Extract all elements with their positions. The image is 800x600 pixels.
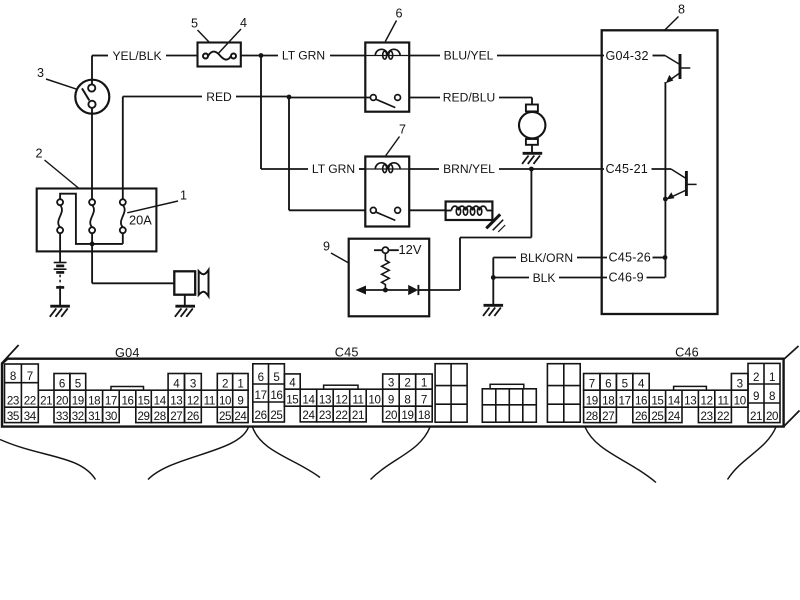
- svg-text:4: 4: [173, 377, 180, 390]
- C45 end block pins 6 5 17 16 26 25: [253, 364, 285, 422]
- svg-text:25: 25: [219, 410, 231, 423]
- svg-text:BRN/YEL: BRN/YEL: [443, 162, 495, 176]
- node D junction on BRN/YEL: [529, 167, 534, 172]
- svg-text:17: 17: [619, 394, 631, 407]
- node G junction on ground wire: [491, 275, 496, 280]
- svg-text:RED: RED: [206, 90, 232, 104]
- fuse B in box 2: [89, 199, 95, 205]
- svg-text:LT GRN: LT GRN: [282, 49, 325, 63]
- svg-text:22: 22: [717, 410, 729, 423]
- svg-text:7: 7: [399, 123, 406, 137]
- svg-text:5: 5: [75, 377, 81, 390]
- svg-text:3: 3: [190, 377, 196, 390]
- unlabeled connector block 2: [547, 364, 580, 423]
- switch 3 (ignition switch): [75, 80, 109, 114]
- svg-text:19: 19: [401, 409, 413, 422]
- svg-text:5: 5: [622, 377, 628, 390]
- C46 middle row pins 19-10: [584, 390, 748, 407]
- wire Q1 emitter to Q2: [664, 82, 666, 199]
- C46 top row pins 7 6 5 4: [584, 374, 600, 391]
- G04 end block pins 8 7 23 22 35 34: [5, 364, 39, 423]
- svg-text:15: 15: [286, 393, 298, 406]
- svg-text:20: 20: [385, 409, 397, 422]
- svg-text:10: 10: [734, 394, 746, 407]
- transistor Q2 base lead: [652, 168, 672, 170]
- svg-text:C45-21: C45-21: [606, 162, 649, 176]
- svg-text:17: 17: [105, 394, 117, 407]
- leader line for label 5: [198, 30, 210, 43]
- relay 6 coil: [365, 55, 409, 57]
- svg-text:21: 21: [352, 409, 364, 422]
- node B junction: [287, 95, 292, 100]
- G04 bottom row pins 33-24: [54, 407, 70, 422]
- harness curve 3: [253, 427, 321, 478]
- svg-text:16: 16: [121, 394, 133, 407]
- solenoid coil: [446, 210, 452, 212]
- wire horn to ground: [184, 295, 186, 306]
- svg-text:9: 9: [753, 390, 759, 403]
- ground at BLK wire: [484, 304, 504, 307]
- svg-text:BLK: BLK: [533, 271, 556, 285]
- svg-text:6: 6: [395, 7, 402, 21]
- svg-text:18: 18: [88, 394, 100, 407]
- svg-text:12: 12: [701, 394, 713, 407]
- wire BLU/YEL relay 6 to ECU: [409, 55, 440, 57]
- svg-text:12: 12: [335, 393, 347, 406]
- svg-text:13: 13: [319, 393, 331, 406]
- svg-text:7: 7: [27, 370, 33, 383]
- harness curve 1: [0, 440, 96, 480]
- wire fuse 5 to node A: [241, 55, 261, 57]
- wire RED/BLU relay 6 to motor: [409, 97, 440, 99]
- svg-text:2: 2: [222, 377, 228, 390]
- svg-text:16: 16: [270, 389, 282, 402]
- wire BRN/YEL relay 7 to ECU: [409, 168, 439, 170]
- svg-text:C45: C45: [335, 346, 359, 360]
- svg-text:24: 24: [302, 409, 315, 422]
- wire motor to ground: [531, 145, 533, 152]
- leader line for label 7: [386, 137, 400, 156]
- svg-text:3: 3: [737, 377, 743, 390]
- C45 top row pins 3 2 1: [383, 374, 400, 389]
- svg-text:18: 18: [418, 409, 430, 422]
- C45 middle row pins 15-7: [284, 389, 432, 406]
- strip top-right corner edge: [784, 346, 799, 360]
- C45 pin 4 cell: [284, 374, 300, 389]
- control unit 9 box: [349, 239, 430, 317]
- relay 6 box: [365, 43, 409, 112]
- svg-text:13: 13: [684, 394, 696, 407]
- solenoid box: [446, 202, 493, 221]
- svg-text:14: 14: [302, 393, 315, 406]
- svg-text:32: 32: [72, 410, 84, 423]
- wire relay 7 switch to solenoid: [409, 209, 445, 211]
- svg-text:11: 11: [204, 394, 215, 407]
- wire fuse A bottom to battery: [59, 233, 61, 262]
- unlabeled connector block 1: [435, 364, 467, 423]
- fuse A in box 2: [57, 199, 63, 205]
- wire RED to relay 6 switch: [289, 97, 370, 99]
- leader line for label 2: [45, 160, 80, 189]
- svg-text:4: 4: [289, 376, 296, 389]
- svg-text:9: 9: [388, 393, 394, 406]
- node E junction in box 9: [383, 288, 388, 293]
- horn bell: [199, 270, 209, 296]
- svg-text:24: 24: [234, 410, 247, 423]
- svg-text:5: 5: [273, 371, 279, 384]
- wire lower LT GRN to relay 7 coil: [359, 168, 365, 170]
- svg-text:BLU/YEL: BLU/YEL: [444, 49, 494, 63]
- svg-text:34: 34: [24, 410, 37, 423]
- svg-text:8: 8: [10, 370, 16, 383]
- wire node B down to relay 7 switch: [288, 97, 290, 210]
- svg-text:LT GRN: LT GRN: [312, 162, 355, 176]
- svg-text:20A: 20A: [129, 213, 152, 228]
- svg-text:2: 2: [753, 371, 759, 384]
- svg-text:21: 21: [40, 394, 52, 407]
- svg-text:C45-26: C45-26: [609, 251, 652, 265]
- wire RED from fuse box 2: [123, 96, 202, 98]
- C46 connector key tab: [674, 386, 707, 390]
- relay 7 box: [365, 157, 409, 227]
- relay 6 switch: [370, 95, 376, 101]
- svg-text:20: 20: [766, 410, 778, 423]
- harness curve 2: [148, 427, 249, 480]
- svg-text:20: 20: [56, 394, 68, 407]
- svg-text:28: 28: [154, 410, 166, 423]
- ground below horn: [175, 305, 195, 308]
- svg-text:10: 10: [219, 394, 231, 407]
- svg-text:14: 14: [154, 394, 167, 407]
- chassis ground at solenoid: [486, 214, 500, 228]
- fuse 4 element: [203, 54, 208, 59]
- fuse box 2: [37, 189, 157, 252]
- wire node D down to control unit 9: [530, 169, 532, 238]
- C46 bottom row pins 28-22: [584, 407, 600, 422]
- harness curve 6: [728, 427, 777, 480]
- transistor Q1 base lead: [653, 55, 666, 57]
- svg-text:1: 1: [180, 189, 187, 203]
- wire LT GRN to relay 6 coil: [261, 55, 278, 57]
- svg-text:26: 26: [255, 409, 267, 422]
- node I junction at C45-26 wire: [664, 256, 666, 258]
- 12V terminal in box 9: [374, 249, 382, 251]
- horn body: [174, 271, 195, 294]
- G04 top row pins 6 5 4 3 2 1: [54, 374, 70, 391]
- svg-text:30: 30: [105, 410, 117, 423]
- svg-text:3: 3: [388, 376, 394, 389]
- svg-text:6: 6: [59, 377, 65, 390]
- svg-text:RED/BLU: RED/BLU: [443, 91, 495, 105]
- svg-text:9: 9: [323, 240, 330, 254]
- G04 middle row pins 21-9: [38, 390, 248, 407]
- svg-text:G04: G04: [115, 346, 140, 360]
- node F junction at C45-26: [663, 255, 668, 260]
- harness curve 5: [585, 427, 656, 483]
- svg-text:12V: 12V: [399, 242, 422, 257]
- svg-text:4: 4: [240, 16, 247, 30]
- svg-text:23: 23: [319, 409, 331, 422]
- svg-text:26: 26: [635, 410, 647, 423]
- fuse holder 5 box: [198, 43, 241, 67]
- harness curve 4: [371, 427, 431, 480]
- arrow output in box 9: [364, 289, 408, 291]
- C45 bottom row pins 24-18: [300, 406, 317, 422]
- node A junction: [259, 53, 264, 58]
- C45 connector key tab: [324, 385, 358, 389]
- svg-text:C46: C46: [675, 346, 699, 360]
- leader line for label 9: [331, 253, 349, 263]
- svg-text:12: 12: [187, 394, 199, 407]
- strip bottom-right corner edge: [784, 411, 800, 427]
- svg-text:4: 4: [638, 377, 645, 390]
- unlabeled low grid block: [482, 389, 536, 422]
- svg-text:6: 6: [258, 371, 264, 384]
- svg-text:C46-9: C46-9: [609, 271, 644, 285]
- svg-text:17: 17: [255, 389, 267, 402]
- wire BLK/ORN: [493, 257, 516, 259]
- C46 pin 3 cell: [731, 374, 748, 391]
- wire from switch 3 to fuse box 2: [91, 108, 93, 199]
- svg-text:23: 23: [701, 410, 713, 423]
- svg-text:26: 26: [187, 410, 199, 423]
- svg-text:21: 21: [750, 410, 762, 423]
- svg-text:BLK/ORN: BLK/ORN: [520, 251, 573, 265]
- node C junction in box 2: [90, 242, 95, 247]
- fuse C 20A in box 2: [120, 199, 126, 205]
- wire BLK: [493, 277, 529, 279]
- svg-text:23: 23: [7, 394, 19, 407]
- svg-text:31: 31: [88, 410, 100, 423]
- svg-text:1: 1: [421, 376, 427, 389]
- wire fuse C bottom to bus: [122, 233, 124, 244]
- strip top-left corner edge: [2, 345, 19, 364]
- svg-text:14: 14: [668, 394, 681, 407]
- svg-text:7: 7: [421, 393, 427, 406]
- relay 7 coil: [365, 168, 409, 170]
- transistor Q1 collector: [681, 67, 690, 69]
- svg-text:25: 25: [270, 409, 282, 422]
- svg-text:3: 3: [37, 66, 44, 80]
- leader line for label 8: [665, 17, 679, 31]
- low grid key tab: [490, 384, 524, 389]
- wire ground branch: [492, 258, 494, 305]
- svg-text:G04-32: G04-32: [606, 49, 649, 63]
- svg-text:27: 27: [602, 410, 614, 423]
- leader line for label 6: [385, 21, 396, 42]
- ground below motor: [523, 152, 543, 155]
- wire RED to node B: [236, 96, 289, 98]
- svg-text:25: 25: [651, 410, 663, 423]
- svg-text:6: 6: [605, 377, 611, 390]
- svg-text:11: 11: [717, 394, 728, 407]
- svg-text:18: 18: [602, 394, 614, 407]
- svg-text:35: 35: [7, 410, 19, 423]
- diode in box 9: [408, 285, 418, 295]
- node H junction at Q2 emitter: [663, 197, 668, 202]
- ECU box 8: [602, 30, 718, 314]
- svg-text:11: 11: [352, 393, 363, 406]
- motor M1: [526, 105, 538, 112]
- leader line for label 1: [127, 201, 178, 213]
- svg-text:19: 19: [72, 394, 84, 407]
- C46 end block pins 2 1 9 8 21 20: [748, 363, 780, 422]
- svg-text:8: 8: [404, 393, 410, 406]
- svg-text:1: 1: [237, 377, 243, 390]
- wire node A down to lower LT GRN branch: [260, 56, 262, 170]
- transistor Q2 emitter: [668, 191, 685, 199]
- transistor Q1 emitter: [667, 74, 679, 82]
- transistor Q2 collector: [688, 183, 697, 185]
- connector strip outline: [2, 359, 784, 427]
- svg-text:YEL/BLK: YEL/BLK: [112, 49, 161, 63]
- battery: [54, 262, 67, 264]
- transistor Q2 base bar: [685, 171, 688, 196]
- ground below battery: [50, 305, 70, 308]
- svg-text:16: 16: [635, 394, 647, 407]
- svg-text:10: 10: [368, 393, 380, 406]
- svg-text:2: 2: [404, 376, 410, 389]
- svg-text:19: 19: [586, 394, 598, 407]
- resistor in box 9: [382, 253, 390, 290]
- wire YEL/BLK from ignition switch to fuse 5: [92, 55, 108, 57]
- svg-text:22: 22: [24, 394, 36, 407]
- svg-text:1: 1: [769, 371, 775, 384]
- svg-text:24: 24: [668, 410, 681, 423]
- wire fuse B bottom down to horn: [91, 233, 93, 283]
- svg-text:5: 5: [191, 17, 198, 31]
- svg-text:2: 2: [35, 146, 42, 160]
- svg-text:8: 8: [769, 390, 775, 403]
- svg-text:27: 27: [170, 410, 182, 423]
- svg-text:9: 9: [237, 394, 243, 407]
- G04 connector key tab: [111, 387, 144, 391]
- relay 7 switch: [370, 207, 376, 213]
- svg-text:8: 8: [678, 3, 685, 17]
- wire fuse A hook to bus: [60, 194, 92, 244]
- transistor Q1 base bar: [679, 54, 682, 79]
- svg-text:7: 7: [589, 377, 595, 390]
- svg-text:22: 22: [335, 409, 347, 422]
- svg-text:15: 15: [651, 394, 663, 407]
- svg-text:29: 29: [137, 410, 149, 423]
- leader line for label 4: [218, 29, 241, 54]
- svg-text:15: 15: [137, 394, 149, 407]
- leader line for label 3: [46, 79, 77, 89]
- svg-text:28: 28: [586, 410, 598, 423]
- svg-text:33: 33: [56, 410, 68, 423]
- svg-text:13: 13: [170, 394, 182, 407]
- wire Q2 emitter down to pins: [664, 199, 666, 278]
